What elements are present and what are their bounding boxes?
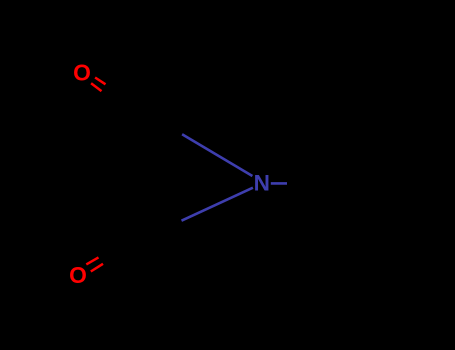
svg-text:O: O [73,60,91,86]
svg-text:N: N [254,171,270,196]
svg-text:O: O [69,262,87,288]
